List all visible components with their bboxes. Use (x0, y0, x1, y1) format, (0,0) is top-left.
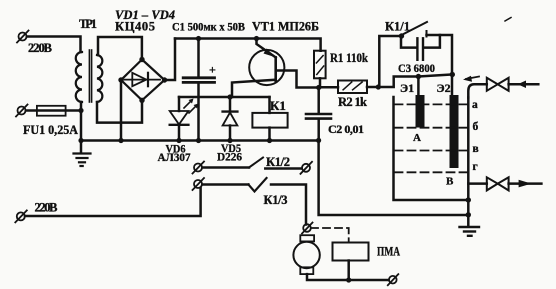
junction bridge minus on bus (118, 138, 123, 143)
junction C1 bottom (196, 138, 201, 143)
wire E1 lead (417, 77, 420, 97)
transformer TP1 (76, 50, 103, 102)
svg-text:Э2: Э2 (437, 81, 451, 95)
wire primary bottom to ground bus (80, 102, 83, 141)
electrode E1 (416, 95, 425, 128)
wire top plus bus (175, 39, 321, 51)
junction tank bottom corner (466, 197, 471, 202)
junction motor bus (346, 277, 351, 282)
motor M (293, 235, 348, 280)
svg-text:С1 500мк х 50В: С1 500мк х 50В (172, 22, 245, 34)
outlet valve (487, 177, 509, 190)
wire PMA bottom (347, 261, 350, 281)
inlet arrow (518, 81, 526, 89)
svg-text:D226: D226 (217, 150, 242, 164)
wire to terminal bottom right (349, 279, 388, 282)
resistor R2 (320, 81, 378, 94)
svg-text:К1/1: К1/1 (385, 19, 410, 33)
wire electrode node (378, 75, 452, 88)
tank water levels dashed (395, 104, 468, 172)
junction VD5 bottom (227, 138, 232, 143)
starter PMA box (333, 243, 369, 261)
junction electrode line right (450, 72, 455, 77)
tank walls (394, 97, 469, 200)
mech link dashed to PMA (311, 228, 349, 243)
svg-text:FU1 0,25А: FU1 0,25А (23, 123, 78, 137)
junction lower bus right (466, 212, 471, 217)
contact K1-2 (193, 158, 313, 174)
svg-text:К1/2: К1/2 (266, 155, 290, 169)
relay contact K1-1 (399, 22, 427, 39)
junction R1 bottom (316, 85, 321, 90)
wire DC- down to lower bus (319, 140, 469, 215)
svg-text:АЛ307: АЛ307 (158, 150, 191, 164)
LED VD6 (170, 97, 199, 141)
inlet valve (487, 78, 509, 91)
fuse FU1 (37, 106, 66, 116)
terminal X2 mains bottom (16, 105, 28, 117)
wire bridge plus to top bus (165, 39, 176, 81)
contact K1-3 (193, 178, 307, 225)
svg-text:б: б (473, 121, 479, 133)
wire 220V bottom (25, 188, 201, 216)
svg-text:а: а (472, 99, 478, 111)
svg-text:R2 1k: R2 1k (338, 95, 367, 109)
junction fuse/primary (78, 108, 83, 113)
svg-text:+: + (209, 63, 216, 77)
junction C2 bottom (316, 138, 321, 143)
wire tank to ground (467, 200, 470, 226)
svg-text:КЦ405: КЦ405 (115, 20, 155, 34)
svg-text:ПМА: ПМА (377, 245, 400, 259)
wire collector node line (179, 96, 270, 99)
diode VD5 (223, 97, 238, 141)
junction R2 right (376, 84, 381, 89)
diode bridge VD1-VD4 (118, 57, 167, 103)
wire secondary bottom to bridge bottom (97, 100, 142, 122)
svg-text:К1/3: К1/3 (264, 193, 288, 207)
svg-text:С2 0,01: С2 0,01 (328, 122, 364, 136)
wire fuse line (26, 109, 81, 112)
junction collector VD5 (227, 94, 232, 99)
junction E1 top (416, 74, 421, 79)
capacitor C3 (401, 35, 440, 60)
wire mains top to transformer (27, 37, 81, 53)
svg-text:в: в (473, 143, 479, 155)
svg-text:220В: 220В (35, 201, 58, 215)
terminal X3 mains bottom (15, 210, 26, 222)
wire secondary top to bridge top (98, 37, 142, 60)
wire K1-1 left branch (379, 36, 401, 87)
svg-text:ТР1: ТР1 (79, 17, 97, 31)
svg-text:R1 110k: R1 110k (330, 51, 368, 65)
svg-text:К1: К1 (270, 98, 286, 113)
capacitor C2 (306, 88, 331, 141)
svg-text:г: г (473, 161, 478, 173)
terminal X4 bottom right (388, 274, 399, 285)
ground chassis left (74, 141, 91, 167)
wire K1-1 right branch (427, 35, 453, 95)
wire DC- bus (81, 139, 319, 142)
svg-text:220В: 220В (28, 41, 52, 55)
svg-text:Э1: Э1 (400, 81, 414, 95)
terminal motor top (302, 223, 313, 234)
electrode E2 (450, 95, 459, 168)
ground chassis tank (460, 227, 480, 236)
flow arrow inlet (463, 76, 479, 82)
svg-text:В: В (446, 176, 454, 188)
speck top right (505, 18, 511, 22)
svg-text:VT1 МП26Б: VT1 МП26Б (252, 20, 319, 34)
junction C1 top (196, 36, 201, 41)
junction emitter on bus (254, 36, 259, 41)
inlet pipe bend (468, 84, 487, 97)
junction VD6 bottom (176, 138, 181, 143)
outlet pipe right with arrow (509, 182, 542, 185)
terminal X1 220V top (17, 31, 29, 43)
relay K1 (252, 97, 287, 141)
capacitor C1 (183, 39, 214, 141)
junction ground corner (78, 138, 83, 143)
wire bridge minus down (120, 80, 123, 141)
junction relay bottom (267, 138, 272, 143)
outlet pipe (468, 182, 487, 185)
svg-text:С3 6800: С3 6800 (398, 61, 435, 75)
resistor R1 (314, 51, 326, 88)
inlet pipe (509, 83, 539, 86)
transistor VT1 (232, 39, 319, 98)
svg-text:А: А (413, 132, 421, 144)
